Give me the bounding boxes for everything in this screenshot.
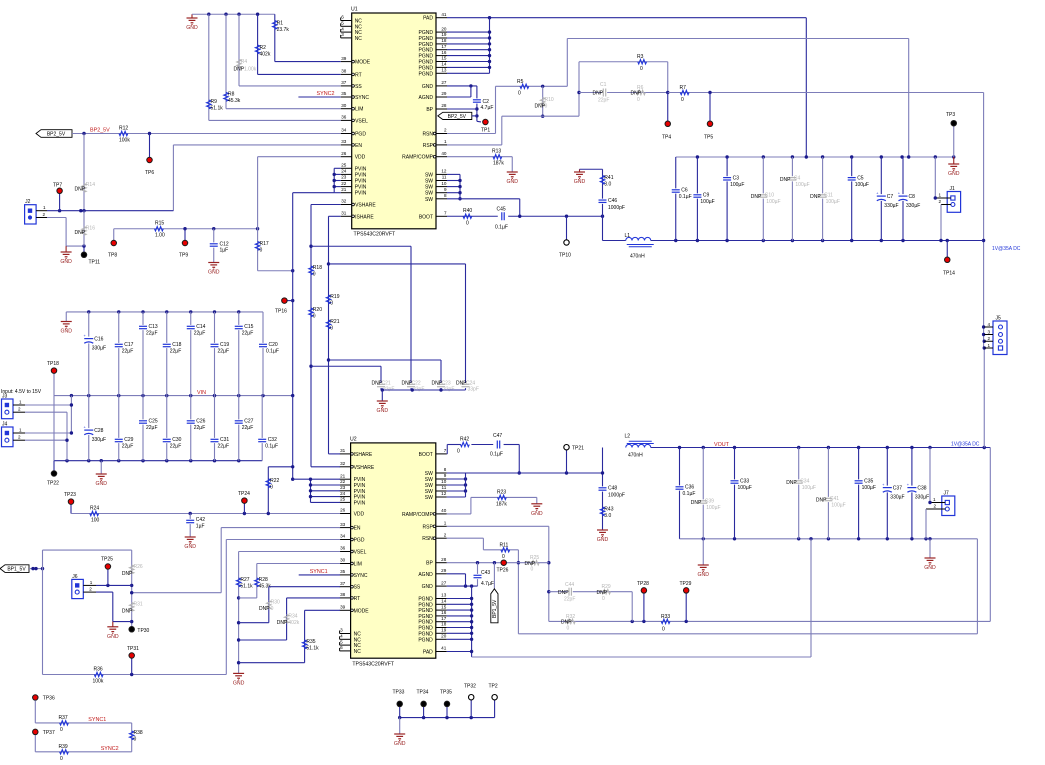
svg-text:330µF: 330µF — [884, 203, 898, 209]
svg-text:R2: R2 — [260, 45, 267, 51]
svg-text:30: 30 — [340, 558, 346, 563]
svg-text:LIM: LIM — [355, 107, 363, 113]
resistor R39 0 SYNC2 — [35, 744, 131, 762]
svg-text:R1: R1 — [277, 21, 284, 27]
svg-text:DNP: DNP — [816, 498, 827, 504]
svg-text:6: 6 — [341, 15, 344, 20]
capacitor C22 DNP 33pF — [402, 381, 425, 393]
svg-text:TP34: TP34 — [417, 690, 429, 696]
resistor R9 51.1k — [207, 14, 224, 120]
svg-text:187k: 187k — [493, 161, 504, 167]
wire PGD U2 to R36 loop — [226, 540, 340, 675]
svg-text:100µF: 100µF — [862, 485, 876, 491]
svg-text:0: 0 — [330, 301, 333, 307]
svg-text:DNP: DNP — [593, 91, 604, 97]
svg-text:39: 39 — [340, 605, 346, 610]
svg-text:22µF: 22µF — [218, 349, 230, 355]
svg-text:0: 0 — [545, 104, 548, 110]
svg-text:C18: C18 — [172, 342, 181, 348]
svg-text:C39: C39 — [705, 499, 714, 505]
svg-text:PGD: PGD — [354, 538, 365, 544]
test point TP30 — [129, 627, 150, 634]
resistor R7 0 — [668, 85, 984, 103]
resistor R18 0 — [309, 265, 322, 278]
wire GND27 AGND U2 — [447, 574, 478, 588]
capacitor C42 1uF — [186, 514, 205, 538]
svg-text:R41: R41 — [604, 175, 613, 181]
resistor R42 0 — [457, 437, 469, 455]
svg-text:R9: R9 — [211, 99, 218, 105]
svg-text:TP7: TP7 — [53, 183, 62, 189]
test point TP29 — [680, 581, 692, 621]
svg-text:22µF: 22µF — [122, 349, 134, 355]
svg-text:16: 16 — [441, 50, 447, 55]
resistor R32 DNP — [561, 614, 575, 632]
svg-text:SW: SW — [425, 172, 433, 178]
capacitor C19 22µF — [210, 312, 229, 396]
U2 left pins with numbers — [340, 448, 375, 655]
wire ISHARE bus — [327, 216, 341, 454]
svg-text:0: 0 — [60, 756, 63, 760]
capacitor C37 330µF — [882, 448, 904, 539]
svg-text:J5: J5 — [996, 316, 1002, 322]
wire input GND top rail — [66, 310, 263, 313]
svg-text:PVIN: PVIN — [355, 191, 367, 197]
svg-text:TP9: TP9 — [179, 253, 188, 259]
svg-text:36: 36 — [341, 115, 347, 120]
svg-text:19: 19 — [441, 628, 447, 633]
resistor R14 DNP vertical — [75, 134, 96, 211]
svg-text:L1: L1 — [625, 233, 631, 239]
ground GND R13 — [506, 172, 518, 185]
node BP1_5V power flag — [0, 565, 29, 573]
svg-text:18: 18 — [441, 622, 447, 627]
test point TP36 — [33, 695, 55, 723]
svg-text:TP4: TP4 — [662, 135, 671, 141]
svg-text:470nH: 470nH — [630, 254, 645, 260]
svg-text:DNP: DNP — [277, 620, 288, 626]
svg-text:R17: R17 — [260, 241, 269, 247]
svg-text:GND: GND — [95, 481, 107, 487]
svg-text:DNP: DNP — [780, 177, 791, 183]
svg-text:TP25: TP25 — [101, 557, 113, 563]
svg-text:PVIN: PVIN — [355, 172, 367, 178]
svg-text:187k: 187k — [496, 502, 507, 508]
svg-text:PGND: PGND — [419, 71, 434, 77]
inductor L2 470nH — [625, 434, 654, 459]
svg-text:24: 24 — [340, 491, 346, 496]
svg-text:SW: SW — [425, 495, 433, 501]
capacitor C10 100µF DNP — [751, 157, 781, 241]
svg-text:15: 15 — [441, 604, 447, 609]
svg-text:28: 28 — [441, 557, 447, 562]
wire SS U1 — [239, 85, 341, 87]
resistor R24 100 — [90, 506, 100, 524]
ground GND snubber1 — [574, 169, 586, 185]
wire J7 pin1 to vout2 — [928, 448, 931, 505]
U1 right pins with numbers — [402, 12, 447, 220]
capacitor C47 0.1uF — [490, 433, 503, 458]
wire MODE U1 — [275, 61, 341, 63]
svg-text:39: 39 — [341, 56, 347, 61]
capacitor C4 100µF DNP — [780, 157, 810, 241]
resistor R8 45.3k — [224, 14, 241, 108]
test point TP37 — [33, 729, 55, 752]
wire DNP cap gnd rail — [381, 388, 466, 401]
capacitor C30 22µF — [162, 396, 181, 461]
svg-text:20: 20 — [441, 634, 447, 639]
svg-text:29: 29 — [441, 568, 447, 573]
node SYNC1 stub U2 — [299, 569, 340, 575]
svg-text:C11: C11 — [824, 193, 833, 199]
svg-text:1: 1 — [988, 343, 991, 348]
svg-text:3: 3 — [988, 329, 991, 334]
svg-text:RSN: RSN — [422, 132, 433, 138]
svg-text:R37: R37 — [59, 715, 68, 721]
U2 right pins with numbers — [402, 448, 447, 655]
svg-text:BP1_5V: BP1_5V — [7, 567, 26, 573]
svg-text:45.3k: 45.3k — [228, 98, 241, 104]
svg-text:L2: L2 — [625, 434, 631, 440]
svg-text:C17: C17 — [124, 342, 133, 348]
svg-text:R22: R22 — [270, 478, 279, 484]
wire input GND bottom rail — [54, 396, 262, 463]
svg-text:DNP: DNP — [691, 500, 702, 506]
svg-text:0: 0 — [271, 606, 274, 612]
capacitor C46 1000pF snubber — [598, 198, 625, 211]
test point TP7 — [53, 183, 62, 211]
svg-text:C44: C44 — [565, 582, 574, 588]
svg-text:J3: J3 — [2, 394, 8, 400]
test point TP28 — [637, 581, 649, 621]
svg-text:SYNC: SYNC — [355, 95, 369, 101]
svg-text:R23: R23 — [497, 489, 506, 495]
svg-text:VSHARE: VSHARE — [355, 203, 376, 209]
svg-text:3.0: 3.0 — [604, 182, 611, 188]
svg-text:C27: C27 — [244, 419, 253, 425]
test point TP18 — [47, 361, 59, 396]
resistor R20 0 — [309, 307, 322, 320]
capacitor C5 100µF — [847, 157, 869, 241]
svg-text:C45: C45 — [497, 207, 506, 213]
capacitor C15 22µF — [234, 312, 253, 396]
test point TP1 — [477, 119, 490, 133]
svg-text:RSP: RSP — [423, 143, 434, 149]
capacitor C48 1000pF snubber2 — [598, 486, 625, 499]
svg-text:2: 2 — [18, 435, 21, 440]
svg-text:0: 0 — [640, 66, 643, 72]
svg-text:C13: C13 — [149, 324, 158, 330]
ground GND input top rail — [60, 312, 72, 335]
svg-text:402k: 402k — [260, 52, 271, 58]
wire SW bundle U1 — [447, 174, 520, 216]
svg-text:J6: J6 — [72, 574, 78, 580]
resistor R36 100k — [43, 667, 227, 685]
svg-text:R8: R8 — [228, 92, 235, 98]
svg-text:LIM: LIM — [354, 562, 362, 568]
svg-text:C26: C26 — [196, 419, 205, 425]
svg-text:1: 1 — [43, 205, 46, 210]
svg-text:RAMP/COMP: RAMP/COMP — [402, 512, 434, 518]
resistor R31 DNP — [122, 602, 143, 615]
wire GND rail top — [192, 13, 275, 16]
svg-text:0: 0 — [518, 91, 521, 97]
svg-text:R13: R13 — [492, 149, 501, 155]
resistor R43 3.0 snubber2 — [600, 507, 613, 520]
svg-text:37: 37 — [341, 80, 347, 85]
svg-text:4: 4 — [340, 634, 343, 639]
svg-text:35: 35 — [341, 91, 347, 96]
svg-text:7: 7 — [444, 448, 447, 453]
svg-text:J7: J7 — [944, 491, 950, 497]
svg-text:SW: SW — [425, 197, 433, 203]
svg-text:C43: C43 — [481, 570, 490, 576]
svg-text:R31: R31 — [134, 602, 143, 608]
svg-text:TP21: TP21 — [572, 446, 584, 452]
svg-text:12: 12 — [441, 169, 447, 174]
wire C44 R29 branch — [549, 592, 632, 622]
svg-text:0: 0 — [134, 737, 137, 743]
svg-text:29: 29 — [441, 91, 447, 96]
svg-text:12: 12 — [441, 491, 447, 496]
svg-text:VSEL: VSEL — [355, 118, 368, 124]
svg-text:C48: C48 — [608, 486, 617, 492]
svg-text:23: 23 — [341, 175, 347, 180]
resistor R29 DNP — [597, 584, 611, 602]
svg-text:GND: GND — [233, 681, 245, 687]
wire VDD U1 riser with R17 — [258, 157, 341, 273]
wire BOOT U2 net — [447, 445, 521, 475]
svg-text:20: 20 — [441, 26, 447, 31]
wire TP33 gnd rail — [398, 716, 495, 719]
capacitor C14 22µF — [186, 312, 205, 396]
svg-text:TPS543C20RVFT: TPS543C20RVFT — [352, 661, 395, 667]
svg-text:27: 27 — [441, 80, 447, 85]
svg-text:TP11: TP11 — [89, 260, 101, 266]
svg-text:31: 31 — [341, 211, 347, 216]
svg-text:0: 0 — [313, 314, 316, 320]
svg-text:15: 15 — [441, 56, 447, 61]
wire SW bundle U2 — [447, 471, 603, 497]
wire EN U1 loop — [173, 145, 340, 211]
capacitor C35 100µF — [854, 448, 876, 539]
svg-text:DNP: DNP — [810, 194, 821, 200]
wire sense to J5 vertical — [982, 93, 985, 349]
svg-text:U1: U1 — [351, 7, 358, 13]
svg-text:C8: C8 — [909, 194, 916, 200]
wire RSP U2 sense — [447, 448, 991, 624]
svg-text:11: 11 — [442, 485, 447, 490]
svg-text:TP36: TP36 — [43, 696, 55, 702]
svg-text:DNP: DNP — [122, 571, 133, 577]
wire riser PGND to bank1 — [805, 18, 807, 157]
svg-text:R33: R33 — [661, 614, 670, 620]
svg-text:TPS543C20RVFT: TPS543C20RVFT — [354, 232, 397, 238]
capacitor C36 0.1µF — [675, 448, 695, 539]
svg-text:C4: C4 — [794, 175, 801, 181]
svg-text:0: 0 — [270, 484, 273, 490]
test point TP32 — [464, 684, 476, 718]
svg-text:14: 14 — [441, 599, 447, 604]
resistor R12 100k — [119, 126, 130, 144]
svg-text:38: 38 — [340, 592, 346, 597]
svg-text:17: 17 — [441, 616, 447, 621]
svg-text:GND: GND — [394, 741, 406, 747]
wire J1 pin1 to gnd rail — [934, 157, 937, 200]
svg-text:SW: SW — [425, 179, 433, 185]
svg-text:R19: R19 — [330, 294, 339, 300]
svg-text:8: 8 — [444, 193, 447, 198]
svg-text:VDD: VDD — [354, 512, 365, 518]
svg-text:TP33: TP33 — [393, 690, 405, 696]
wire RSN sense net — [447, 39, 909, 158]
svg-text:U2: U2 — [350, 437, 357, 443]
svg-text:TP35: TP35 — [440, 690, 452, 696]
svg-text:TP37: TP37 — [43, 730, 55, 736]
ground GND input bottom rail — [95, 461, 107, 488]
connector J6 — [72, 574, 96, 599]
capacitor C28 330µF — [84, 396, 106, 461]
svg-text:NC: NC — [355, 36, 363, 42]
svg-text:GND: GND — [184, 544, 196, 550]
wire BP1_5V loop — [29, 550, 133, 674]
svg-text:9: 9 — [444, 473, 447, 478]
svg-text:PVIN: PVIN — [354, 500, 366, 506]
wire J2 pin1 EN net — [47, 209, 173, 212]
test point TP2 — [489, 684, 498, 718]
wire J5 riser — [983, 340, 986, 448]
test point TP21 — [564, 445, 584, 474]
test point TP25 — [101, 557, 113, 586]
svg-text:TP28: TP28 — [637, 581, 649, 587]
svg-text:0: 0 — [502, 554, 505, 560]
svg-text:100µF: 100µF — [738, 485, 752, 491]
svg-text:C29: C29 — [124, 437, 133, 443]
capacitor C12 1uF — [209, 229, 229, 263]
svg-text:BOOT: BOOT — [419, 214, 433, 220]
svg-text:38: 38 — [341, 69, 347, 74]
svg-text:100µF: 100µF — [802, 485, 816, 491]
svg-text:AGND: AGND — [418, 572, 433, 578]
test point TP3 — [946, 112, 957, 157]
wire BOOT net — [447, 215, 604, 218]
svg-text:TP24: TP24 — [238, 491, 250, 497]
capacitor C9 100µF — [693, 157, 715, 241]
svg-text:0: 0 — [60, 727, 63, 733]
svg-text:PVIN: PVIN — [355, 179, 367, 185]
svg-text:C30: C30 — [172, 437, 181, 443]
wire RT U1 — [258, 73, 341, 75]
svg-text:R34: R34 — [288, 614, 297, 620]
svg-text:ISHARE: ISHARE — [354, 452, 373, 458]
resistor R15 1.00 — [155, 221, 165, 239]
capacitor C2 4.7uF — [472, 86, 493, 121]
capacitor C1 DNP 22pF — [579, 82, 629, 104]
svg-text:3: 3 — [341, 32, 344, 37]
svg-text:100µF: 100µF — [795, 182, 809, 188]
svg-text:33: 33 — [341, 139, 347, 144]
svg-text:10: 10 — [441, 181, 447, 186]
svg-text:C5: C5 — [857, 175, 864, 181]
svg-text:2: 2 — [89, 587, 92, 592]
svg-text:19: 19 — [441, 32, 447, 37]
svg-text:C32: C32 — [268, 437, 277, 443]
svg-text:TP29: TP29 — [680, 581, 692, 587]
capacitor C6 0.1µF — [671, 157, 691, 241]
svg-text:TP6: TP6 — [145, 170, 154, 176]
svg-text:0.1µF: 0.1µF — [679, 194, 692, 200]
svg-text:C3: C3 — [733, 175, 740, 181]
op-amp U1 TPS543C20RVFT regulator body — [351, 7, 436, 238]
test point TP31 — [127, 646, 139, 675]
svg-text:100µF: 100µF — [730, 182, 744, 188]
svg-text:0: 0 — [466, 221, 469, 227]
resistor R23 187k — [447, 489, 537, 514]
svg-text:J2: J2 — [25, 199, 31, 205]
svg-text:C35: C35 — [864, 479, 873, 485]
svg-text:30: 30 — [341, 103, 347, 108]
wire J3 J4 pin2 to GND — [25, 412, 69, 461]
svg-text:SYNC2: SYNC2 — [317, 91, 335, 97]
resistor R3 0 — [579, 54, 668, 93]
svg-text:DNP: DNP — [122, 609, 133, 615]
svg-text:33: 33 — [340, 522, 346, 527]
svg-text:1: 1 — [444, 139, 447, 144]
svg-text:GND: GND — [377, 408, 389, 414]
svg-text:TP16: TP16 — [275, 309, 287, 315]
svg-text:SW: SW — [425, 185, 433, 191]
wire GND bank1 rail — [676, 155, 956, 158]
svg-text:EN: EN — [355, 143, 362, 149]
wire L2 column — [601, 448, 604, 531]
wire PVIN bundle U1 — [291, 168, 341, 395]
svg-text:100µF: 100µF — [766, 199, 780, 205]
wire VDD U2 rail — [71, 512, 340, 515]
svg-text:22µF: 22µF — [194, 425, 206, 431]
svg-text:DNP: DNP — [597, 590, 608, 596]
svg-text:0.1µF: 0.1µF — [266, 349, 279, 355]
svg-text:R3: R3 — [637, 54, 644, 60]
svg-text:0: 0 — [567, 626, 570, 632]
svg-text:22µF: 22µF — [170, 444, 182, 450]
svg-text:1V@35A DC: 1V@35A DC — [992, 246, 1021, 252]
resistor R16 DNP vertical — [75, 211, 96, 246]
svg-text:RT: RT — [354, 596, 361, 602]
capacitor C44 DNP 22pF — [558, 582, 575, 603]
svg-text:R24: R24 — [90, 506, 99, 512]
resistor R41 3.0 snubber — [580, 169, 614, 240]
wire BP pin stub — [447, 108, 477, 110]
wire GND27 AGND net — [447, 84, 477, 97]
test point TP11 — [81, 246, 100, 265]
svg-text:R11: R11 — [500, 543, 509, 549]
svg-text:1: 1 — [19, 399, 22, 404]
capacitor C41 100µF DNP — [816, 448, 846, 539]
svg-text:100µF: 100µF — [700, 199, 714, 205]
svg-text:1V@35A DC: 1V@35A DC — [951, 442, 980, 448]
capacitor C31 22µF — [210, 396, 229, 461]
svg-text:51.1k: 51.1k — [306, 646, 319, 652]
capacitor C45 0.1uF — [495, 207, 508, 231]
svg-text:GND: GND — [506, 179, 518, 185]
svg-text:330µF: 330µF — [890, 495, 904, 501]
op-amp U2 TPS543C20RVFT regulator body — [350, 437, 436, 668]
svg-text:R5: R5 — [517, 79, 524, 85]
resistor R2 402k — [255, 14, 270, 74]
test point TP23 — [64, 492, 76, 514]
capacitor C23 DNP 33pF — [432, 381, 455, 393]
capacitor C3 100µF — [723, 157, 745, 241]
